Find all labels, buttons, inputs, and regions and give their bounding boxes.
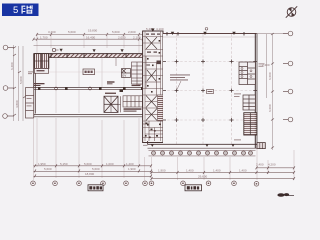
svg-text:4,200: 4,200 (268, 162, 276, 166)
left grid bubble A (3, 45, 14, 50)
dark text above mid wall (132, 85, 141, 86)
shaft column left of core (132, 62, 143, 84)
bottom-right dimension line2 (152, 178, 295, 180)
left annex (exterior stair) (26, 88, 34, 118)
core lower partitions extra (143, 56, 163, 141)
svg-text:5,600: 5,600 (84, 162, 92, 166)
core elevator shaft X upper (146, 37, 157, 49)
svg-text:1,400: 1,400 (186, 168, 194, 172)
svg-text:2,050: 2,050 (118, 35, 126, 39)
left vertical dimension numbers (rotated) (10, 62, 23, 108)
partition near top wall (115, 58, 117, 67)
small survey circle above line (205, 28, 208, 31)
toilet fixtures (241, 68, 252, 78)
bottom-left dimension line3 (34, 175, 152, 177)
sheet background (0, 0, 300, 198)
svg-text:5,600: 5,600 (68, 30, 76, 34)
colonnade column circles (152, 151, 253, 155)
locker text band (124, 108, 142, 111)
svg-text:6,600: 6,600 (268, 104, 272, 112)
left vertical dimension ticks (13, 47, 26, 117)
svg-text:5,150: 5,150 (60, 162, 68, 166)
top dimension numbers row 1 (left block) (40, 28, 141, 39)
top-left stair (hatched) (34, 54, 48, 69)
right grid bubble row1 (283, 31, 293, 36)
core door dots (147, 40, 160, 138)
bottom-right corner block (257, 143, 265, 149)
outside leader mark (28, 72, 33, 75)
svg-text:1,400: 1,400 (126, 162, 134, 166)
svg-text:1,000: 1,000 (106, 162, 114, 166)
right block interior grid verticals (177, 34, 232, 144)
right block floor fill (163, 34, 256, 145)
svg-text:4,800: 4,800 (15, 100, 19, 108)
building label box 2 (88, 185, 103, 191)
right edge vertical dimension line (267, 34, 273, 150)
small boxed label in open floor (207, 90, 214, 94)
svg-text:5,600: 5,600 (92, 167, 100, 171)
right grid bubble row2 (283, 61, 293, 66)
locker cell grid (123, 96, 143, 107)
left grid bubble B (3, 86, 14, 91)
corridor partition right of stairwell (118, 96, 121, 112)
mid utility rooms right (243, 95, 255, 110)
bottom-left dimension numbers row1 (38, 162, 134, 166)
colonnade rails (149, 149, 256, 151)
svg-text:1,950: 1,950 (38, 162, 46, 166)
bubble number dots (32, 183, 257, 185)
bottom-left dimension numbers row2 (44, 167, 136, 171)
building label box 1 (185, 185, 202, 191)
svg-text:5,600: 5,600 (44, 167, 52, 171)
left block floor fill (35, 55, 143, 115)
machine room text (37, 70, 45, 71)
colonnade column centers (152, 152, 252, 154)
core side text smudges (136, 44, 169, 101)
room name label box (office) (83, 69, 95, 75)
svg-text:1,900: 1,900 (158, 168, 166, 172)
bottom-left dim line2 ticks (34, 169, 152, 172)
top edge extension to right bubble (257, 33, 289, 35)
bottom-right short dimension line (257, 167, 295, 169)
right block right wall (254, 34, 256, 149)
svg-text:6,600: 6,600 (268, 72, 272, 80)
svg-text:1,900: 1,900 (128, 167, 136, 171)
bottom-left dim line1 ticks (34, 164, 152, 167)
svg-text:1,400: 1,400 (239, 168, 247, 172)
left vertical dimension lines (14, 45, 24, 121)
svg-text:2,400: 2,400 (256, 162, 264, 166)
svg-text:6,400: 6,400 (10, 62, 14, 70)
top dimension line 1 (left block) (34, 35, 144, 40)
right grid bubble row4 (283, 117, 293, 122)
right block interior grid horizontals (163, 62, 255, 121)
core partition lines (143, 37, 163, 135)
core hatched duct (158, 95, 164, 121)
svg-text:5,600: 5,600 (112, 30, 120, 34)
core elevator shaft X lower1 (146, 96, 157, 108)
svg-text:4,100: 4,100 (156, 27, 164, 31)
column cross marks (163, 60, 257, 123)
svg-text:16,400: 16,400 (86, 35, 96, 39)
right stair leader text (234, 139, 241, 142)
core small shaft X middle (147, 70, 156, 81)
elevator lobby block (122, 69, 131, 78)
room below stair (machine room) (34, 69, 48, 74)
right edge dimension numbers (262, 63, 272, 112)
top dimension numbers (above core / right block) (146, 27, 164, 31)
top edge section arrows (171, 32, 174, 35)
bottom-right stacked pair numbers (256, 162, 276, 166)
top wall mullion ticks (51, 53, 126, 58)
mid wall column marks (38, 87, 143, 90)
bottom-right dimension numbers row1 (158, 168, 247, 172)
core lower dark marks (145, 123, 161, 137)
svg-text:18,800: 18,800 (85, 172, 95, 176)
core top arrow (151, 29, 155, 32)
top dimension extension verticals (left block) (37, 33, 139, 54)
bottom extension verticals right (145, 149, 295, 181)
svg-text:1,700: 1,700 (40, 35, 48, 39)
svg-text:5: 5 (13, 5, 18, 16)
toilet area label (259, 64, 265, 67)
section arrows above wall (60, 49, 63, 52)
svg-text:1,400: 1,400 (213, 168, 221, 172)
toilet cluster top right (239, 62, 255, 85)
right block secondary top line (163, 36, 257, 38)
bottom-right dimension line1 (152, 171, 295, 173)
bottom extension verticals left (34, 118, 140, 180)
left grid bubble C (3, 114, 14, 119)
svg-text:29,600: 29,600 (198, 175, 208, 179)
right edge dimension ticks (271, 33, 274, 149)
top dimension line above core (143, 30, 163, 32)
title box 5F (2, 4, 39, 17)
left block bottom wall (34, 114, 144, 116)
reception text blob (34, 83, 45, 86)
svg-text:2,600: 2,600 (128, 30, 136, 34)
svg-text:5,000: 5,000 (19, 76, 23, 84)
top edge column ticks (167, 32, 244, 36)
survey circle on eaves (52, 48, 55, 51)
bottom-left dimension line2 (34, 170, 152, 172)
right block top edge line (163, 33, 257, 35)
left block mid wall (34, 87, 144, 89)
left block left wall (33, 54, 35, 116)
top dimension ticks (left block) (33, 33, 145, 41)
utility label (234, 94, 241, 97)
left block interior faint grid row (36, 71, 142, 73)
bottom-right signature mark (277, 193, 294, 197)
left block eaves line (34, 45, 144, 47)
office label text (right block) (170, 75, 190, 81)
dark mark near EV (120, 90, 124, 93)
stairwell label (105, 93, 116, 94)
annex text (27, 98, 32, 106)
core inner walls (144, 31, 146, 141)
core top cell fixtures (146, 34, 161, 66)
right stair (hatched) (244, 113, 257, 135)
mid stairwell with X (104, 96, 118, 112)
right grid bubble row3 (283, 89, 293, 94)
right block bottom wall lines (148, 143, 258, 145)
left block top wall band (hatched windows) (34, 54, 144, 58)
north compass (286, 6, 297, 17)
mid wall column circles (55, 87, 58, 90)
bottom grid bubbles row (31, 181, 259, 186)
svg-text:EV: EV (122, 74, 126, 78)
bottom wall column ticks (151, 144, 235, 147)
left block interior grid verticals (56, 58, 124, 113)
svg-text:19,800: 19,800 (88, 28, 98, 32)
core elevator shaft X lower2 (146, 109, 157, 121)
central core outline (143, 31, 163, 143)
bottom-left dimension line1 (34, 165, 152, 167)
